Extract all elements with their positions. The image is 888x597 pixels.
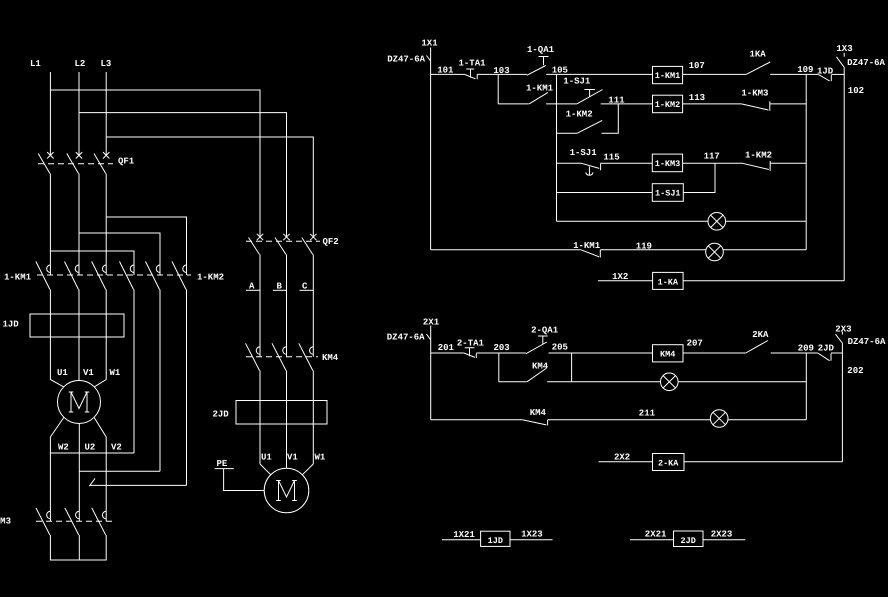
svg-text:1-KA: 1-KA (658, 277, 679, 287)
svg-text:QF2: QF2 (323, 237, 339, 247)
wire row3' seg2 (548, 419, 711, 421)
breaker QF1 pole 1 (38, 152, 53, 173)
wire motor2 W1 lead (302, 464, 313, 475)
breaker QF1 pole 2 (67, 152, 82, 173)
svg-text:1X3: 1X3 (836, 44, 852, 54)
wire tap L2 phase to KM2 pole 5 (79, 233, 160, 275)
wire tap L3 to QF2 pole C (106, 137, 313, 237)
SECTION: power circuit motor 2 (213, 234, 339, 513)
svg-text:U2: U2 (85, 443, 96, 453)
contactor KM4 pole 2 (272, 343, 287, 370)
svg-text:DZ47-6A: DZ47-6A (387, 55, 425, 65)
wire tap L1 to QF2 pole A (50, 90, 260, 237)
svg-text:1-KM1: 1-KM1 (526, 84, 554, 94)
wire row2 seg1 (498, 103, 529, 105)
wire KM2 pole5 drop (159, 290, 161, 472)
svg-text:2X2: 2X2 (614, 453, 630, 463)
wire row4' seg2 (684, 461, 842, 463)
svg-text:113: 113 (689, 93, 705, 103)
svg-text:QF1: QF1 (118, 157, 135, 167)
contactor 1-KM1 pole 3 (92, 262, 107, 290)
svg-text:102: 102 (848, 86, 864, 96)
svg-text:205: 205 (552, 342, 568, 352)
breaker QF1 linkage (38, 163, 113, 165)
svg-text:U1: U1 (261, 453, 272, 463)
svg-text:2JD: 2JD (681, 536, 696, 546)
svg-text:U1: U1 (57, 368, 68, 378)
wire tap L2 to QF2 pole B (79, 113, 287, 237)
contactor 1-KM2 pole 4 (120, 262, 135, 290)
wire QF2 pole C out (312, 255, 314, 357)
wire row1 seg5 (770, 73, 818, 75)
svg-text:203: 203 (494, 343, 510, 353)
svg-text:1-SJ1: 1-SJ1 (563, 77, 591, 87)
wire left rail ckt2 (430, 326, 432, 420)
contactor KM4 linkage (246, 356, 318, 358)
contactor 1-KM3 pole 2 (65, 508, 80, 535)
wire terminal 2JD left (630, 539, 674, 541)
coil 1-KM3 U (652, 154, 682, 172)
svg-text:1-KM2: 1-KM2 (566, 110, 593, 120)
wire row1' seg5 (771, 352, 818, 354)
svg-text:L3: L3 (101, 59, 112, 69)
contactor 1-KM1 pole 2 (65, 262, 80, 290)
wire star point middle (78, 535, 80, 560)
wire KM1 pole2 to motor V1 (78, 290, 80, 381)
svg-text:1JD: 1JD (488, 536, 503, 546)
svg-text:1-KM1: 1-KM1 (655, 71, 681, 81)
lamp HL1 (708, 213, 726, 231)
svg-text:2X23: 2X23 (711, 530, 733, 540)
breaker DZ47-6A right tick ckt2 (836, 332, 843, 343)
wire branch 203 drop ckt2 (498, 353, 500, 382)
wire right rail ckt1 (843, 67, 845, 281)
wire row1' seg2 (476, 352, 526, 354)
breaker QF2 linkage (246, 240, 320, 242)
svg-text:117: 117 (704, 152, 720, 162)
svg-text:2-QA1: 2-QA1 (531, 325, 559, 335)
svg-text:2-KA: 2-KA (658, 459, 679, 469)
contactor KM4 pole 1 (246, 343, 261, 370)
wire KM4 pole3 out (312, 371, 314, 465)
svg-text:L2: L2 (75, 59, 86, 69)
wire KM1 pole1 to motor U1 (50, 290, 63, 387)
wire collector rail 209 drop ckt2 (805, 353, 807, 420)
lamp HL4 (710, 410, 728, 428)
wire tap W2 to KM2 pole4 (50, 452, 134, 454)
wire L1 drop (49, 72, 51, 155)
terminal box 2JD (674, 531, 704, 547)
wire row1' seg1 (431, 352, 464, 354)
contactor 1-KM3 pole 1 (36, 508, 51, 535)
wire row4' seg1 (599, 461, 653, 463)
wire row4 seg4 (770, 162, 806, 164)
contactor 1-KM2 pole 6 (172, 262, 187, 290)
wire KM4 pole1 out (259, 371, 261, 465)
svg-text:V1: V1 (287, 453, 298, 463)
svg-text:1-KM2: 1-KM2 (655, 100, 681, 110)
svg-text:2KA: 2KA (752, 330, 769, 340)
SECTION: control circuit 2 (387, 318, 886, 471)
wire row1 seg3 (546, 73, 652, 75)
wire KM1 pole3 to motor W1 (94, 290, 106, 387)
timer coil 1-SJ1 U (652, 184, 683, 202)
svg-text:1-KM3: 1-KM3 (655, 159, 681, 169)
wire tap U2 to KM2 pole5 (79, 470, 160, 472)
lamp HL3 (661, 373, 679, 391)
svg-text:2X3: 2X3 (835, 324, 851, 334)
wire stub near V2 tap (89, 478, 95, 486)
wire terminal 1JD right (510, 539, 553, 541)
wire row2 seg3 (601, 103, 653, 105)
wire row4 seg3 (683, 162, 743, 164)
svg-text:1X21: 1X21 (453, 530, 475, 540)
svg-text:W1: W1 (315, 453, 326, 463)
wire QF2 pole B out (286, 255, 288, 357)
svg-text:1-KM3: 1-KM3 (741, 88, 768, 98)
svg-text:1-TA1: 1-TA1 (459, 59, 487, 69)
svg-text:1-KM1: 1-KM1 (4, 273, 32, 283)
wire row2 seg4 (683, 103, 742, 105)
contactor 1-KM3 pole 3 (92, 508, 107, 535)
wire row2 seg5 (770, 103, 806, 105)
wire row1' seg3 (549, 352, 653, 354)
svg-text:W2: W2 (58, 443, 69, 453)
wire inner rail 105 drop (556, 74, 558, 221)
wire PE to motor2 frame (224, 469, 265, 491)
wire row2' seg3 (678, 381, 806, 383)
wire row3 seg2 and riser to 111 (602, 104, 619, 133)
wire motor V2 lead (94, 418, 106, 522)
wire row3' seg1 (431, 419, 523, 421)
svg-text:DZ47-6A: DZ47-6A (387, 332, 425, 342)
svg-text:2-TA1: 2-TA1 (457, 339, 485, 349)
contactor KM4 pole 3 (299, 343, 314, 370)
wire KM2 pole4 drop (133, 290, 135, 454)
svg-text:L1: L1 (30, 59, 41, 69)
wire motor U2 lead (78, 424, 80, 522)
wire row5 seg1 (557, 192, 653, 194)
wire row7 seg3 (723, 249, 806, 251)
wire row4 seg2 (601, 162, 653, 164)
svg-text:202: 202 (847, 366, 863, 376)
wire terminal 1JD left (442, 539, 481, 541)
coil KM4 U (653, 345, 684, 362)
wire row3 seg1 (557, 132, 578, 134)
relay coil 1-KA U (653, 272, 684, 289)
motor M2 (264, 468, 309, 513)
svg-text:V2: V2 (111, 443, 122, 453)
wire L3 drop (105, 72, 107, 155)
wire QF2 pole A out (259, 255, 261, 357)
wire row1 seg1 (431, 73, 465, 75)
svg-text:DZ47-6A: DZ47-6A (847, 58, 885, 68)
lamp HL2 (706, 243, 724, 261)
contactor 1-KM1 pole 1 (36, 262, 51, 290)
wire tap L1 phase to KM2 pole 4 (50, 251, 134, 275)
svg-text:KM4: KM4 (322, 353, 339, 363)
svg-text:1-KM2: 1-KM2 (745, 151, 772, 161)
svg-text:211: 211 (639, 409, 656, 419)
terminal box 1JD (481, 531, 510, 546)
terminal block 1JD (30, 314, 124, 337)
wire row1 seg4 (683, 73, 747, 75)
wire tap V2 to KM2 pole6 (90, 484, 187, 486)
svg-text:2JD: 2JD (213, 410, 230, 420)
svg-text:2X1: 2X1 (423, 318, 440, 328)
SECTION: bottom terminals (442, 530, 745, 547)
svg-text:PE: PE (217, 459, 228, 469)
wire QF1 pole1 out (49, 174, 51, 276)
contactor 1-KM3 linkage (36, 520, 112, 522)
coil 1-KM2 U (653, 95, 683, 113)
coil 1-KM1 U (653, 66, 683, 83)
wire motor W2 lead (50, 418, 63, 522)
svg-text:KM4: KM4 (660, 349, 675, 359)
svg-text:V1: V1 (83, 368, 94, 378)
wire tap L3 phase to KM2 pole 6 (106, 217, 186, 275)
wire row6 seg2 (726, 220, 807, 222)
terminal block 2JD (236, 401, 327, 425)
wire star point bar (50, 535, 106, 560)
svg-text:115: 115 (603, 153, 619, 163)
svg-text:107: 107 (689, 61, 705, 71)
breaker DZ47-6A left tick ckt2 (427, 334, 431, 340)
contactor 1-KM2 pole 5 (146, 262, 161, 290)
wire row1' seg4 (683, 352, 746, 354)
breaker DZ47-6A left tick (427, 56, 431, 62)
wire row8 seg1 (598, 280, 653, 282)
motor M1 (58, 381, 101, 424)
wire collector rail 109 drop (805, 74, 807, 249)
svg-text:209: 209 (798, 344, 814, 354)
svg-text:W1: W1 (110, 368, 121, 378)
svg-text:2JD: 2JD (818, 344, 835, 354)
svg-text:1-SJ1: 1-SJ1 (570, 148, 598, 158)
breaker QF2 pole A (249, 234, 264, 255)
svg-text:1X1: 1X1 (421, 39, 438, 49)
wire row1 seg2 (477, 73, 527, 75)
breaker QF1 pole 3 (94, 152, 109, 173)
wire KM2 pole6 drop (186, 290, 188, 486)
wire right rail ckt2 (841, 343, 843, 462)
svg-text:1-KM2: 1-KM2 (197, 273, 224, 283)
wire row7 seg1 (431, 249, 581, 251)
wire row1 seg6 (831, 73, 844, 75)
wire motor2 U1 lead (260, 464, 271, 475)
svg-text:1-KM3: 1-KM3 (0, 517, 11, 527)
svg-text:1-SJ1: 1-SJ1 (655, 189, 681, 199)
svg-text:1-KM1: 1-KM1 (573, 241, 601, 251)
wire QF1 pole2 out (78, 174, 80, 276)
wire row2' seg2 (547, 381, 660, 383)
wire KM4 pole2 out (286, 371, 288, 469)
svg-text:KM4: KM4 (532, 362, 549, 372)
svg-text:1-QA1: 1-QA1 (527, 45, 555, 55)
wire left rail ckt1 (430, 48, 432, 250)
svg-text:DZ47-6A: DZ47-6A (848, 337, 886, 347)
wire row4 seg1 (557, 162, 582, 164)
wire row3' seg3 (728, 419, 806, 421)
breaker QF2 pole B (275, 234, 290, 255)
svg-text:201: 201 (438, 343, 455, 353)
wire branch 205 drop ckt2 (571, 353, 573, 382)
wire row2' seg1 (499, 381, 527, 383)
svg-text:2X21: 2X21 (645, 530, 667, 540)
svg-text:1KA: 1KA (750, 50, 767, 60)
breaker QF2 pole C (302, 234, 317, 255)
wire L2 drop (78, 72, 80, 155)
SECTION: power circuit motor 1 (0, 59, 313, 560)
svg-text:KM4: KM4 (530, 408, 547, 418)
wire row2 seg2 (546, 103, 577, 105)
wire row5 seg2 and riser to 117 (683, 163, 715, 192)
breaker DZ47-6A right tick (836, 53, 844, 67)
SECTION: control circuit 1 (387, 39, 885, 290)
relay coil 2-KA U (653, 454, 685, 471)
svg-text:1JD: 1JD (3, 320, 20, 330)
contactor row linkage 1-KM1/1-KM2 (37, 274, 191, 276)
svg-text:1X23: 1X23 (521, 530, 543, 540)
svg-text:109: 109 (797, 65, 813, 75)
wire branch 103 drop (497, 74, 499, 104)
wire terminal 2JD right (703, 539, 745, 541)
svg-text:207: 207 (687, 339, 703, 349)
wire row6 seg1 (557, 220, 709, 222)
wire row7 seg2 (600, 249, 705, 251)
wire row8 seg2 (683, 280, 844, 282)
wire row1' seg6 (831, 352, 842, 354)
wire QF1 pole3 out (105, 174, 107, 276)
